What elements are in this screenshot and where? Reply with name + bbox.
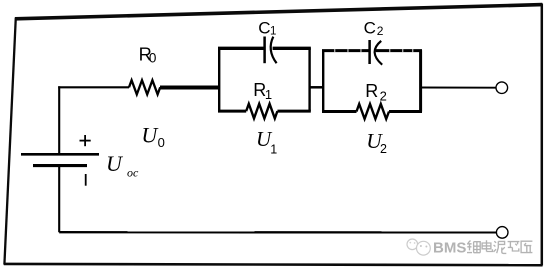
svg-text:2: 2 xyxy=(380,89,387,104)
svg-text:C: C xyxy=(364,19,376,38)
svg-text:1: 1 xyxy=(270,142,277,156)
svg-text:1: 1 xyxy=(270,26,276,38)
svg-text:2: 2 xyxy=(377,24,384,38)
svg-text:C: C xyxy=(258,18,270,37)
svg-text:U: U xyxy=(106,151,124,176)
svg-text:1: 1 xyxy=(265,87,272,102)
svg-text:R: R xyxy=(365,81,378,101)
svg-text:0: 0 xyxy=(149,50,157,65)
svg-text:oc: oc xyxy=(127,166,139,180)
svg-text:BMS: BMS xyxy=(433,240,466,257)
svg-text:2: 2 xyxy=(380,142,387,156)
svg-text:0: 0 xyxy=(158,135,165,150)
